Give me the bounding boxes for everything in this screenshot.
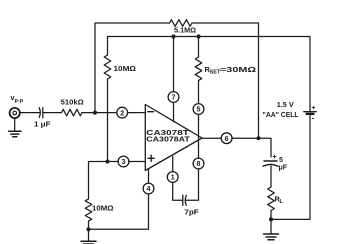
svg-text:1 μF: 1 μF — [34, 119, 51, 128]
wire R1 to pin2 — [82, 112, 117, 114]
wire pin7 supply — [173, 37, 175, 92]
svg-text:1.5 V: 1.5 V — [277, 100, 294, 109]
resistor RSET 30M ohm — [195, 57, 202, 81]
wire pin4 stub to op-amp — [148, 169, 150, 183]
pin 7 — [168, 92, 179, 103]
resistor 10M ohm lower — [85, 199, 92, 221]
svg-text:CA3078AT: CA3078AT — [146, 137, 190, 144]
svg-text:3: 3 — [122, 157, 126, 166]
node pin3-bias junction — [105, 159, 109, 163]
node battery return junction — [269, 217, 273, 221]
svg-text:2: 2 — [120, 108, 124, 117]
node feedback-input junction — [93, 111, 97, 115]
svg-text:=30MΩ: =30MΩ — [220, 65, 256, 74]
svg-text:L: L — [280, 199, 284, 205]
svg-text:7: 7 — [172, 93, 176, 102]
resistor RL — [268, 187, 275, 211]
wire pin4 return — [89, 194, 149, 229]
svg-text:5: 5 — [197, 105, 201, 114]
wire RL to ground node — [270, 211, 272, 234]
pin 1 — [167, 172, 178, 183]
wire top rail right to output — [192, 23, 259, 138]
wire pin1 to compensation cap — [173, 182, 183, 200]
wire 10M lower to ground node — [88, 221, 90, 241]
plus input marker — [148, 157, 154, 159]
node RSET rail junction — [196, 34, 200, 38]
resistor 510k ohm — [62, 109, 83, 116]
svg-text:10MΩ: 10MΩ — [114, 64, 137, 73]
svg-text:1: 1 — [171, 173, 175, 182]
pin 5 — [193, 104, 204, 115]
capacitor C2 7pF — [182, 195, 184, 205]
svg-text:-: - — [312, 114, 315, 123]
node ground junction left — [86, 227, 90, 231]
wire 10M upper to pin3 node — [107, 79, 109, 162]
op-amp U1 CA3078 — [145, 105, 202, 171]
wire C1 to R1 — [43, 112, 62, 114]
svg-text:5: 5 — [279, 157, 283, 164]
wire pin5 to pin8 through device — [198, 114, 200, 158]
capacitor C3 5uF — [264, 160, 277, 162]
svg-text:+: + — [273, 154, 277, 161]
resistor 10M ohm upper — [104, 55, 111, 79]
pin 8 — [193, 158, 204, 169]
ground lower left — [81, 241, 96, 244]
ground lower right — [264, 234, 279, 240]
resistor 5.1M ohm — [170, 20, 193, 27]
svg-text:p-p: p-p — [15, 98, 24, 104]
pin 4 — [143, 183, 154, 194]
node pin7 rail junction — [171, 34, 175, 38]
svg-text:"AA" CELL: "AA" CELL — [263, 110, 299, 119]
minus input marker — [148, 111, 154, 113]
wire pin8 to compensation cap — [186, 169, 198, 200]
wire supply rail — [108, 37, 311, 111]
wire battery negative return — [271, 116, 310, 220]
svg-text:10MΩ: 10MΩ — [92, 204, 114, 213]
wire pin3 input — [89, 162, 119, 200]
battery BT1 1.5V AA cell — [304, 111, 316, 113]
wire top feedback rail — [95, 23, 170, 113]
svg-text:5.1MΩ: 5.1MΩ — [174, 25, 196, 34]
pin 6 — [221, 133, 232, 144]
svg-text:6: 6 — [225, 134, 229, 143]
wire rail to RSET — [198, 37, 200, 58]
svg-text:4: 4 — [147, 184, 151, 193]
pin 3 — [118, 156, 129, 167]
wire RSET to pin5 — [198, 81, 200, 104]
wire C3 to RL — [270, 166, 272, 187]
capacitor C1 1uF — [39, 108, 40, 118]
wire pin7 to op-amp — [173, 102, 175, 121]
wire output pin6 — [202, 137, 221, 139]
svg-text:8: 8 — [197, 159, 201, 168]
wire pin2 to op-amp — [128, 112, 146, 114]
ground input — [9, 131, 21, 136]
wire terminal to C1 — [21, 112, 40, 114]
svg-text:+: + — [312, 105, 316, 112]
node output junction — [256, 136, 260, 140]
wire pin3 to op-amp — [129, 161, 145, 163]
wire op-amp to pin1 — [172, 157, 174, 172]
pin 2 — [117, 107, 128, 118]
svg-text:μF: μF — [279, 165, 288, 172]
wire pin6 to load branch — [232, 138, 271, 157]
svg-text:7pF: 7pF — [184, 208, 199, 217]
input terminal J1 — [10, 108, 20, 118]
svg-text:510kΩ: 510kΩ — [61, 97, 84, 106]
wire terminal ground stub — [14, 118, 16, 131]
